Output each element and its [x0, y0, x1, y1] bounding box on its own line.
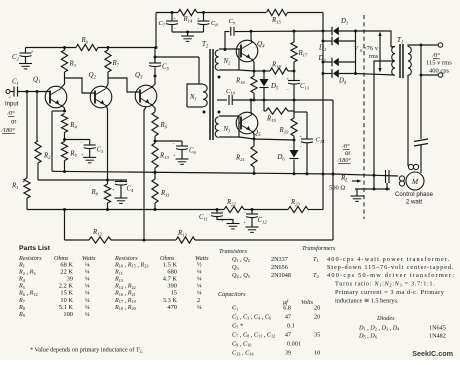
- svg-text:3.3 K: 3.3 K: [163, 297, 178, 304]
- svg-text:* Value depends on primary ind: * Value depends on primary inductance of…: [30, 347, 144, 355]
- svg-text:35: 35: [314, 332, 320, 339]
- svg-text:¼: ¼: [85, 262, 90, 269]
- svg-text:470: 470: [167, 304, 177, 311]
- svg-text:Transformers: Transformers: [302, 245, 336, 252]
- svg-text:15 K: 15 K: [60, 290, 73, 297]
- svg-text:C7 , C8 , C11 , C12: C7 , C8 , C11 , C12: [232, 332, 275, 339]
- svg-text:2 watt: 2 watt: [406, 199, 423, 206]
- svg-text:Input: Input: [5, 102, 19, 108]
- svg-text:Diodes: Diodes: [376, 315, 395, 322]
- svg-text:∕180°: ∕180°: [0, 127, 15, 134]
- svg-text:Capacitors: Capacitors: [218, 291, 246, 298]
- svg-text:¼: ¼: [85, 290, 90, 297]
- svg-text:Q1 , Q2: Q1 , Q2: [232, 256, 250, 263]
- svg-text:C2 , C3 , C4 , C6: C2 , C3 , C4 , C6: [232, 314, 272, 321]
- svg-text:20: 20: [314, 305, 320, 312]
- svg-text:Volts: Volts: [301, 299, 314, 306]
- svg-text:¼: ¼: [197, 276, 202, 283]
- svg-text:39: 39: [67, 276, 73, 283]
- svg-text:2N656: 2N656: [271, 264, 288, 271]
- svg-text:½: ½: [197, 262, 202, 269]
- svg-text:=76 v: =76 v: [363, 45, 379, 52]
- svg-text:inductance ≅ 1.5 henrys.: inductance ≅ 1.5 henrys.: [335, 298, 399, 305]
- svg-text:400 cps: 400 cps: [429, 68, 450, 75]
- svg-text:Primary current = 3 ma d-c. P: Primary current = 3 ma d-c. Primary: [335, 289, 445, 296]
- svg-text:20: 20: [314, 314, 320, 321]
- svg-text:2N337: 2N337: [271, 256, 288, 263]
- svg-text:∕0°: ∕0°: [6, 110, 15, 117]
- svg-text:1.5 K: 1.5 K: [163, 262, 178, 269]
- svg-text:115 v rms: 115 v rms: [426, 60, 452, 67]
- svg-text:15: 15: [171, 290, 177, 297]
- svg-text:22 K: 22 K: [60, 269, 73, 276]
- svg-text:Parts List: Parts List: [19, 245, 51, 252]
- svg-text:¼: ¼: [85, 297, 90, 304]
- svg-text:¼: ¼: [197, 283, 202, 290]
- svg-text:2.2 K: 2.2 K: [59, 283, 74, 290]
- svg-text:Step-down 115–76-volt center-t: Step-down 115–76-volt center-tapped.: [327, 264, 454, 271]
- svg-text:10 K: 10 K: [60, 297, 73, 304]
- svg-text:2: 2: [197, 297, 200, 304]
- svg-text:39: 39: [285, 350, 291, 357]
- svg-text:1N645: 1N645: [429, 325, 446, 332]
- svg-text:400-cps 50-mw driver transform: 400-cps 50-mw driver transformer:: [327, 272, 455, 279]
- svg-text:6.8: 6.8: [283, 305, 291, 312]
- svg-text:¼: ¼: [197, 304, 202, 311]
- svg-text:¼: ¼: [85, 283, 90, 290]
- svg-text:¼: ¼: [85, 304, 90, 311]
- svg-text:10: 10: [314, 350, 320, 357]
- svg-text:0.001: 0.001: [287, 341, 301, 348]
- svg-text:¼: ¼: [85, 276, 90, 283]
- svg-text:680: 680: [167, 269, 177, 276]
- svg-text:0.1: 0.1: [287, 323, 295, 330]
- svg-text:47: 47: [285, 314, 291, 321]
- svg-text:500 Ω: 500 Ω: [329, 185, 345, 192]
- svg-text:4.7 K: 4.7 K: [163, 276, 178, 283]
- svg-text:SeekIC.com: SeekIC.com: [412, 349, 453, 358]
- svg-text:¼: ¼: [197, 269, 202, 276]
- svg-text:or: or: [11, 120, 16, 126]
- svg-text:47: 47: [285, 332, 291, 339]
- svg-text:Control phase: Control phase: [395, 191, 434, 198]
- svg-text:C5 *: C5 *: [232, 323, 244, 330]
- svg-text:∕0°: ∕0°: [341, 143, 350, 150]
- svg-text:2N1048: 2N1048: [271, 272, 291, 279]
- svg-text:¼: ¼: [85, 269, 90, 276]
- svg-text:68 K: 68 K: [60, 262, 73, 269]
- svg-text:1N482: 1N482: [429, 333, 446, 340]
- svg-text:400-cps 4-watt power transform: 400-cps 4-watt power transformer.: [327, 256, 450, 263]
- svg-text:Q4 , Q5: Q4 , Q5: [232, 272, 250, 279]
- svg-text:100: 100: [63, 311, 73, 318]
- svg-text:390: 390: [167, 283, 177, 290]
- svg-text:¼: ¼: [85, 311, 90, 318]
- svg-text:∕0°: ∕0°: [431, 52, 440, 59]
- svg-text:Transistors: Transistors: [219, 248, 247, 255]
- svg-text:¼: ¼: [197, 290, 202, 297]
- svg-text:Turns ratio: N1:N2:N3 = 3.7:1:: Turns ratio: N1:N2:N3 = 3.7:1:1.: [335, 281, 435, 288]
- svg-text:∕180°: ∕180°: [336, 157, 351, 164]
- svg-text:M: M: [411, 177, 419, 186]
- svg-text:5.1 K: 5.1 K: [59, 304, 74, 311]
- svg-text:rms: rms: [369, 53, 379, 60]
